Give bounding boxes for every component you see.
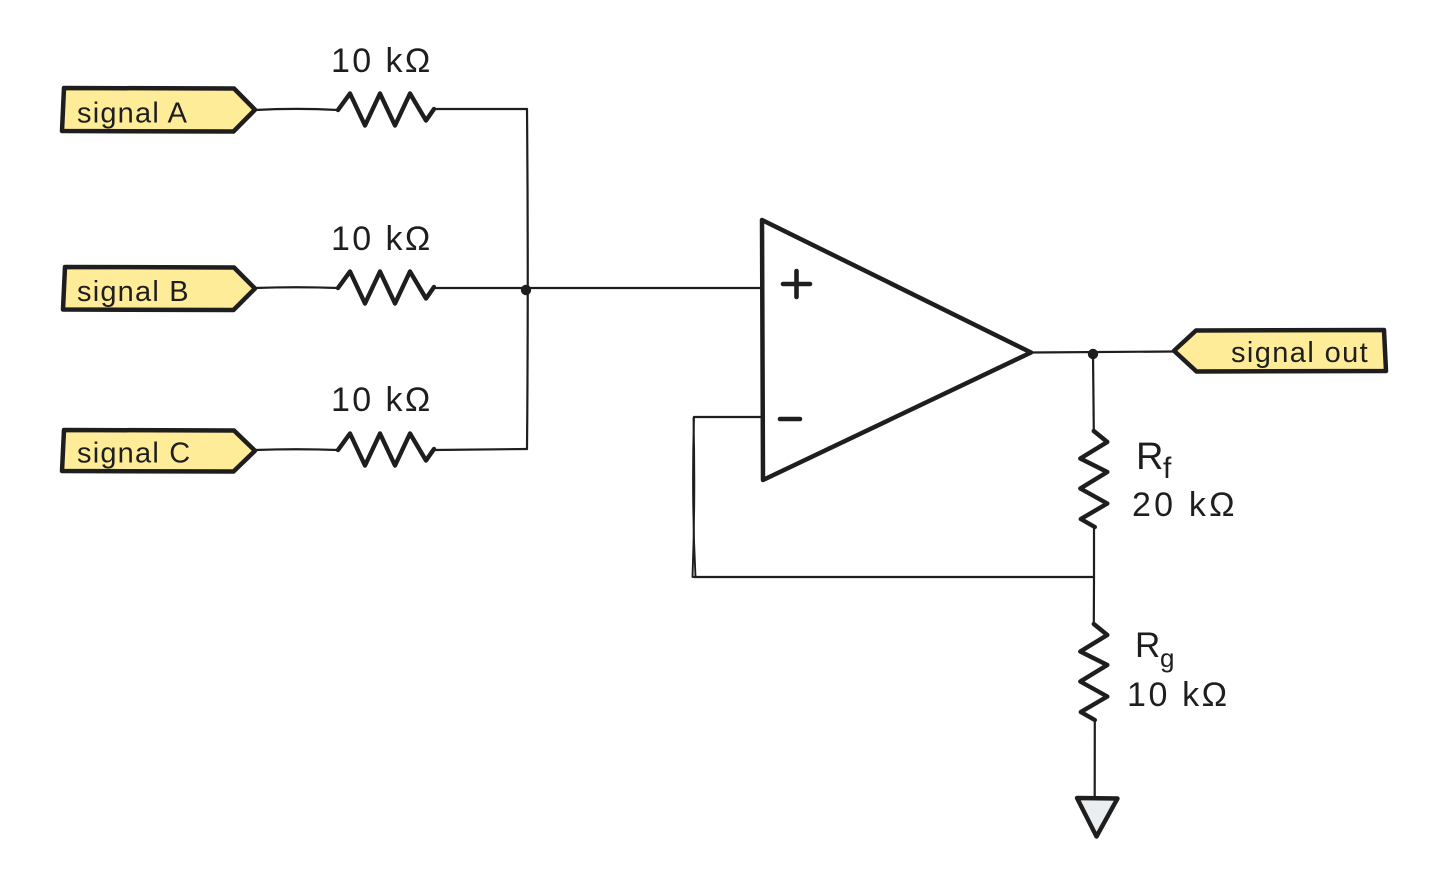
wire: output node down to Rf: [1092, 353, 1095, 431]
wire: signal A to R_A: [255, 109, 338, 110]
svg-text:10 kΩ: 10 kΩ: [1127, 676, 1230, 714]
wire: R_A to summing bus: [434, 108, 527, 110]
wire: vertical summing bus: [526, 109, 529, 449]
op-amp + input marker: [783, 271, 810, 297]
resistor Rf (20 kΩ feedback): [1080, 431, 1107, 527]
output tag: signal out: [1174, 330, 1386, 372]
resistor R_B (10 kΩ, signal B branch): [331, 220, 434, 304]
svg-text:20 kΩ: 20 kΩ: [1132, 486, 1238, 524]
input tag: signal B: [63, 267, 255, 310]
op-amp - input marker: [780, 417, 800, 422]
output node: [1088, 349, 1098, 359]
ground symbol: [1077, 798, 1118, 837]
op-amp U1 (triangle): [762, 220, 1031, 480]
wire: signal C to R_C: [255, 448, 338, 451]
svg-text:signal B: signal B: [77, 276, 190, 308]
input tag: signal A: [62, 88, 255, 132]
input tag: signal C: [62, 430, 255, 472]
svg-text:10 kΩ: 10 kΩ: [331, 220, 433, 258]
wire: feedback node down to Rg: [1093, 577, 1095, 624]
svg-text:signal C: signal C: [77, 438, 191, 470]
wire: Rg to ground: [1094, 720, 1096, 797]
junction node (summing node): [521, 285, 531, 295]
wire: R_B through summing node to op-amp + input: [434, 287, 762, 289]
wire: op-amp output to signal out: [1031, 352, 1174, 353]
svg-text:signal out: signal out: [1231, 337, 1369, 369]
svg-text:f: f: [1163, 452, 1172, 485]
svg-text:10 kΩ: 10 kΩ: [331, 42, 433, 80]
wire: Rf to feedback node: [1093, 527, 1095, 577]
svg-text:R: R: [1135, 626, 1160, 665]
resistor Rg (10 kΩ to ground): [1080, 624, 1107, 720]
wire: R_C to summing bus: [434, 449, 527, 450]
svg-text:signal A: signal A: [77, 98, 188, 130]
resistor R_C (10 kΩ, signal C branch): [331, 381, 434, 466]
svg-text:R: R: [1136, 436, 1163, 478]
wire: - input to feedback (left stub): [694, 416, 762, 418]
wire: signal B to R_B: [255, 286, 338, 289]
wire: feedback horizontal to Rf/Rg node: [694, 576, 1093, 578]
wire: feedback vertical: [693, 417, 696, 577]
label Rg: [1135, 626, 1174, 673]
svg-text:10 kΩ: 10 kΩ: [331, 381, 433, 419]
label Rf: [1136, 436, 1172, 485]
resistor R_A (10 kΩ, signal A branch): [331, 42, 434, 126]
svg-text:g: g: [1160, 643, 1174, 673]
